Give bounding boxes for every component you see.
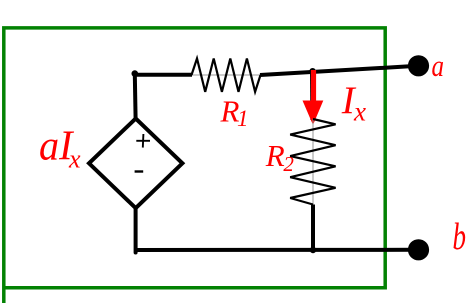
node junction bottom (310, 247, 316, 253)
wire diamond bottom to bottom rail (134, 208, 138, 253)
polarity minus (135, 170, 144, 172)
current arrow Ix (red) (303, 70, 324, 125)
dependent source diamond (89, 119, 182, 209)
svg-text:x: x (68, 145, 81, 174)
wire R1 to terminal a (sloped) (260, 66, 418, 75)
terminal a dot (408, 55, 429, 76)
resistor R2 zigzag (290, 119, 335, 205)
svg-text:x: x (353, 97, 366, 127)
wire junction-to-diamond vertical (133, 74, 138, 119)
svg-text:2: 2 (283, 152, 294, 176)
svg-text:a: a (432, 48, 445, 83)
terminal b dot (408, 239, 429, 260)
wire junction down to R2 (310, 71, 314, 120)
polarity plus (136, 134, 150, 148)
svg-text:b: b (453, 216, 467, 258)
wire R2 to bottom rail (311, 205, 315, 251)
node junction at Ix arrow (309, 68, 315, 74)
network enclosure box (4, 28, 385, 303)
resistor R2 thin through-wire (312, 119, 314, 205)
bottom rail wire (136, 248, 418, 252)
svg-text:1: 1 (237, 106, 249, 131)
resistor R1 thin through-wire (192, 74, 260, 76)
resistor R1 zigzag (192, 59, 261, 92)
wire top horizontal (junction to R1 left) (135, 73, 192, 77)
svg-text:R: R (265, 138, 285, 173)
node junction top-left (132, 70, 139, 77)
